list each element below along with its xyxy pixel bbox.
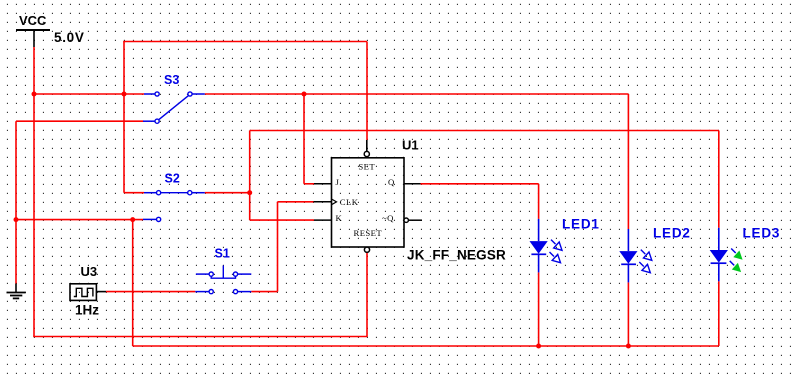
svg-text:U1: U1 bbox=[402, 138, 419, 153]
pin K bbox=[314, 219, 332, 221]
wire Q to LED1 bbox=[421, 183, 539, 185]
wire S1 to CLK riser bbox=[251, 291, 277, 293]
svg-text:S2: S2 bbox=[165, 172, 180, 186]
wire bottom rail to RESET bbox=[33, 336, 367, 338]
wire LED1 bottom bbox=[538, 272, 540, 346]
junction x124 rail y94 bbox=[122, 92, 127, 97]
svg-text:RESET: RESET bbox=[354, 228, 383, 238]
LED3 (lit, green arrows) bbox=[710, 226, 781, 282]
wire K rail horizontal y130 bbox=[250, 130, 719, 132]
junction S2 pole bbox=[247, 190, 252, 195]
junction LED2 bottom bbox=[626, 344, 631, 349]
svg-text:CLK: CLK bbox=[340, 197, 359, 207]
switch S2 bbox=[143, 172, 205, 222]
svg-text:LED2: LED2 bbox=[653, 226, 691, 241]
junction VCC/rail bbox=[32, 92, 37, 97]
junction bottom branch bbox=[130, 217, 135, 222]
wire x124 corner to S2 throw1 bbox=[124, 192, 144, 194]
wire S3 pole to LED2 column bbox=[205, 93, 629, 95]
wire to S2 throw2 bbox=[16, 219, 143, 221]
wire LED1 top drop bbox=[538, 184, 540, 219]
clock source U3 bbox=[70, 264, 106, 318]
wire SET drop bbox=[366, 42, 368, 141]
switch S3 bbox=[143, 73, 205, 123]
wire bottom branch vertical bbox=[132, 220, 134, 346]
wire J branch horizontal bbox=[304, 183, 314, 185]
wire LED2 top drop bbox=[627, 94, 629, 229]
wire top rail vertical x124 bbox=[123, 42, 125, 193]
wire LED2 bottom bbox=[627, 282, 629, 346]
wire U3 to S1 bbox=[106, 291, 195, 293]
wire LED3 top drop bbox=[718, 131, 720, 228]
svg-text:JK_FF_NEGSR: JK_FF_NEGSR bbox=[407, 247, 506, 262]
svg-text:Q: Q bbox=[388, 177, 395, 187]
svg-text:~Q: ~Q bbox=[382, 213, 394, 223]
svg-text:1Hz: 1Hz bbox=[75, 303, 99, 318]
pin ~Q bubble bbox=[404, 218, 408, 222]
pin CLK edge triangle bbox=[314, 201, 332, 203]
pin ~Q stub bbox=[409, 219, 422, 221]
wire VCC to S3 throw1 bbox=[34, 93, 144, 95]
wire left vertical to ground bbox=[15, 121, 17, 283]
LED1 bbox=[530, 217, 600, 273]
svg-text:LED1: LED1 bbox=[562, 217, 600, 232]
svg-text:K: K bbox=[336, 213, 343, 223]
svg-text:SET: SET bbox=[358, 162, 375, 172]
wire LED3 bottom riser bbox=[718, 281, 720, 346]
svg-text:LED3: LED3 bbox=[743, 226, 781, 241]
power VCC bbox=[16, 13, 85, 47]
pin SET stub bbox=[366, 140, 368, 151]
pin RESET bubble bbox=[364, 247, 369, 252]
svg-text:VCC: VCC bbox=[19, 13, 47, 28]
pin SET bubble bbox=[364, 151, 369, 156]
wire J branch vertical bbox=[303, 94, 305, 184]
wire K rail vertical x249 bbox=[249, 131, 251, 221]
junction J branch bbox=[302, 92, 307, 97]
wire S3 throw2 horizontal bbox=[16, 120, 144, 122]
switch S1 (push button) bbox=[195, 247, 251, 294]
wire S2 pole to junction bbox=[205, 192, 250, 194]
LED2 bbox=[619, 226, 690, 283]
wire CLK horizontal bbox=[278, 201, 314, 203]
wire to K pin bbox=[250, 219, 314, 221]
svg-text:U3: U3 bbox=[81, 264, 98, 279]
wire RESET riser bbox=[366, 253, 368, 338]
wire CLK riser vertical bbox=[277, 202, 279, 292]
wire top rail horizontal bbox=[123, 41, 367, 43]
pin Q bbox=[404, 183, 421, 185]
svg-text:J: J bbox=[336, 177, 340, 187]
ground bbox=[7, 284, 26, 299]
junction LED1 bottom bbox=[536, 344, 541, 349]
flip-flop U1 JK_FF_NEGSR bbox=[314, 138, 423, 253]
pin J bbox=[314, 183, 332, 185]
junction left/S2 throw2 bbox=[14, 217, 19, 222]
svg-text:S3: S3 bbox=[164, 73, 179, 87]
wire VCC vertical down bbox=[33, 47, 35, 337]
wire bottom LED rail bbox=[133, 345, 719, 347]
svg-text:5.0V: 5.0V bbox=[54, 30, 85, 45]
svg-text:S1: S1 bbox=[215, 247, 230, 261]
